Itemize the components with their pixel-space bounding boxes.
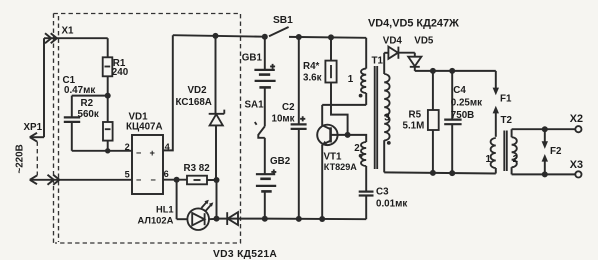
svg-text:2: 2 [354, 143, 360, 154]
terminal X3 [575, 171, 581, 177]
svg-text:X2: X2 [570, 113, 583, 125]
node R5 top junction [430, 68, 436, 74]
transformer T2 [486, 115, 519, 174]
svg-text:X1: X1 [62, 26, 75, 37]
svg-text:XP1: XP1 [24, 122, 43, 133]
wire collector to winding 1 [322, 104, 366, 106]
svg-text:0.01мк: 0.01мк [376, 199, 407, 210]
node emitter junction [319, 216, 325, 222]
svg-text:~220В: ~220В [15, 144, 26, 173]
svg-text:VD5: VD5 [414, 36, 434, 47]
wire R3 node down [216, 180, 218, 219]
wire mains top [44, 38, 108, 137]
diode VD3 [213, 212, 277, 260]
svg-text:VD4,VD5 КД247Ж: VD4,VD5 КД247Ж [368, 17, 459, 29]
svg-text:КС168А: КС168А [176, 97, 212, 108]
resistor R3 [184, 163, 220, 184]
node HL1/VD3 junction [214, 216, 220, 222]
wire junction to C1 [72, 95, 108, 97]
node VT1 base junction [345, 132, 351, 138]
wire bridge pin 6 [163, 179, 187, 181]
svg-text:GB2: GB2 [270, 156, 291, 167]
svg-text:3: 3 [384, 113, 390, 124]
wire rectified rail [415, 70, 496, 72]
rectifier bridge VD1 [125, 112, 171, 194]
capacitor C4 [444, 71, 482, 173]
wire bridge pin 4 to top rail [163, 35, 173, 150]
svg-text:VD4: VD4 [383, 36, 403, 47]
diode VD5 [408, 36, 434, 71]
svg-text:0.25мк: 0.25мк [451, 98, 482, 109]
svg-text:10мк: 10мк [272, 114, 295, 125]
node pin6/R3/HL1 junction [174, 177, 180, 183]
node F2 top junction [542, 126, 548, 132]
svg-text:−: − [136, 175, 141, 185]
svg-text:R4*: R4* [303, 61, 320, 72]
transistor VT1 [317, 105, 357, 219]
svg-text:0.47мк: 0.47мк [64, 85, 95, 96]
svg-text:SB1: SB1 [273, 15, 293, 26]
svg-text:−: − [136, 148, 141, 158]
svg-text:R2: R2 [81, 98, 94, 109]
svg-text:3.6к: 3.6к [303, 72, 322, 83]
svg-text:VT1: VT1 [324, 152, 343, 163]
enclosure dashed box [54, 14, 241, 244]
zener VD2 [176, 36, 225, 180]
wire top rail right segment [289, 36, 366, 39]
battery GB2 [256, 156, 291, 219]
svg-text:750В: 750В [451, 110, 474, 121]
svg-text:6: 6 [164, 169, 169, 179]
svg-text:VD2: VD2 [188, 85, 208, 96]
resistor R5 [403, 71, 439, 173]
transformer T1 [348, 38, 391, 192]
node C4 top junction [449, 68, 455, 74]
LED HL1 [138, 180, 217, 230]
diode VD4 [383, 36, 415, 59]
node GB2 bottom junction [262, 216, 268, 222]
svg-text:КЦ407А: КЦ407А [126, 122, 163, 133]
node C2 bottom junction [296, 216, 302, 222]
capacitor C2 [272, 37, 307, 219]
wire T1 winding3 top to VD4 [384, 52, 388, 54]
svg-text:GB1: GB1 [242, 53, 263, 64]
node VD2 top junction [213, 33, 219, 39]
wire to bridge pin 2 [72, 150, 132, 152]
svg-text:F2: F2 [550, 146, 562, 157]
svg-text:−: − [151, 175, 156, 185]
svg-text:C1: C1 [63, 75, 76, 86]
wire mains bottom [30, 179, 132, 181]
wire output X2 [512, 128, 576, 130]
capacitor C3 [359, 187, 408, 220]
resistor R4 [303, 37, 348, 134]
svg-text:SA1: SA1 [245, 99, 265, 110]
node C2 top junction [296, 34, 302, 40]
svg-text:5: 5 [125, 170, 130, 180]
node GB1 top junction [262, 34, 268, 40]
svg-text:T2: T2 [501, 115, 513, 126]
node F2 bottom junction [542, 171, 548, 177]
svg-text:T1: T1 [372, 56, 384, 67]
battery GB1 [242, 37, 276, 127]
svg-text:C3: C3 [376, 187, 389, 198]
svg-text:R5: R5 [409, 110, 422, 121]
svg-text:АЛ102А: АЛ102А [138, 215, 174, 226]
svg-text:F1: F1 [500, 93, 512, 104]
resistor R2 [78, 96, 113, 154]
svg-text:1: 1 [348, 74, 354, 85]
svg-text:C4: C4 [453, 85, 466, 96]
wire top rail left segment [173, 35, 265, 37]
node R5 bottom junction [430, 170, 436, 176]
capacitor C1 [63, 75, 96, 151]
svg-text:+: + [150, 148, 155, 158]
spark gap F2 [542, 129, 562, 174]
svg-text:HL1: HL1 [156, 205, 174, 215]
svg-text:C2: C2 [282, 102, 295, 113]
node R4 top junction [328, 34, 334, 40]
svg-text:2: 2 [513, 154, 519, 165]
switch SA1 [245, 99, 265, 174]
connector X1 [45, 26, 74, 185]
svg-text:1: 1 [486, 154, 492, 165]
svg-text:5.1M: 5.1M [403, 120, 425, 131]
wire ground rail [265, 218, 366, 221]
spark gap F1 [493, 71, 512, 137]
switch SB1 [269, 15, 293, 37]
svg-text:2: 2 [125, 142, 130, 152]
svg-text:240: 240 [112, 67, 129, 78]
plug XP1 [24, 122, 45, 184]
wire output X3 [512, 173, 576, 175]
svg-text:X3: X3 [570, 159, 583, 171]
svg-text:R3 82: R3 82 [184, 163, 211, 174]
node C4 bottom junction [449, 170, 455, 176]
wire low rail to T2 [384, 172, 496, 173]
svg-text:560к: 560к [78, 109, 99, 120]
resistor R1 [103, 38, 129, 95]
svg-text:VD3 КД521А: VD3 КД521А [213, 249, 277, 260]
svg-text:КТ829А: КТ829А [324, 162, 358, 172]
terminal X2 [575, 126, 581, 132]
node R1/R2/C1 junction [105, 93, 111, 99]
